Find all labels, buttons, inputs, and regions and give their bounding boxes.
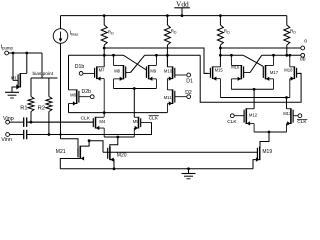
svg-text:CLK: CLK [81, 115, 91, 121]
svg-text:M8: M8 [114, 68, 120, 73]
junction RD3-rail [219, 14, 222, 17]
node gate rail M20/M19 [103, 151, 257, 153]
resistor RD1 [101, 25, 107, 45]
svg-text:D2b: D2b [82, 89, 92, 95]
node line M8/M9 sources [114, 88, 157, 90]
svg-text:M16: M16 [231, 65, 240, 70]
svg-text:M9: M9 [150, 68, 156, 73]
wire M6 source down [68, 104, 70, 113]
wire M5 drain up to inner source line [133, 89, 135, 118]
wire Vinp line to M4 gate [27, 121, 94, 123]
svg-text:M12: M12 [249, 112, 258, 117]
svg-text:R1: R1 [20, 105, 27, 111]
svg-text:o: o [304, 38, 307, 44]
svg-text:R2: R2 [38, 105, 45, 111]
transistor M12 [245, 108, 247, 124]
node ground rail [60, 168, 253, 170]
node bias point line [31, 77, 58, 79]
cross-couple wire to M16 gate [250, 55, 262, 72]
terminal D1 [187, 73, 191, 77]
transistor M17 [265, 65, 267, 79]
node stage1 left output line [69, 54, 124, 56]
transistor M8 [123, 65, 125, 79]
terminal CLKb stage2 [298, 114, 302, 118]
svg-text:Vinn: Vinn [1, 137, 12, 143]
transistor M15 [212, 66, 214, 79]
transistor M5 [138, 117, 140, 129]
transistor M7 [96, 66, 98, 79]
svg-text:M21: M21 [56, 149, 66, 155]
wire bias to R1 [30, 78, 32, 97]
capacitor C2 [23, 130, 25, 140]
resistor R2 [46, 97, 52, 112]
wire M6 drain up to left output [68, 55, 70, 90]
wire Ipump node [9, 52, 43, 54]
terminal ob [301, 53, 305, 57]
wire M20 source down [110, 160, 114, 169]
svg-text:Vinp: Vinp [3, 116, 14, 122]
wire Vinp to cap C1 [10, 121, 24, 123]
ground (main) [188, 169, 190, 174]
svg-text:M13: M13 [283, 111, 292, 116]
junction RD2-rail [166, 14, 169, 17]
svg-text:Vdd: Vdd [176, 0, 189, 8]
svg-text:M10: M10 [164, 68, 173, 73]
wire M21 drain up [80, 141, 89, 146]
wire Vdd stem [181, 8, 183, 16]
transistor M19 [259, 147, 261, 161]
transistor M9 [148, 65, 150, 79]
node line M16/M17 sources [231, 88, 273, 90]
terminal Vinn [6, 133, 10, 137]
wire down to bias point [41, 53, 43, 78]
wire bias to R2 [48, 78, 50, 97]
svg-text:D1b: D1b [75, 64, 85, 70]
svg-text:M15: M15 [215, 67, 224, 72]
terminal D2b [90, 95, 94, 99]
transistor M21 diode-connected mirror [79, 146, 81, 159]
cross-couple wire to M9 gate [124, 55, 147, 70]
terminal o [301, 46, 305, 50]
wire tail to M19 drain [260, 132, 269, 147]
terminal D1b [79, 72, 83, 76]
transistor M4 [95, 117, 97, 129]
resistor R1 [28, 97, 34, 112]
Vdd supply rail [61, 15, 287, 17]
wire stage1 left output to M15 gate [104, 48, 208, 73]
wire Vinn line to M5 gate [27, 122, 152, 134]
junction Vdd-rail [181, 14, 184, 17]
transistor M20 [109, 147, 111, 161]
svg-text:D2: D2 [185, 90, 192, 96]
capacitor C1 [23, 117, 25, 127]
junction R2-Vinn [48, 133, 51, 136]
node line M6/M11 sources + M4 drain [69, 112, 168, 114]
wire Ibias into M21 gate [61, 139, 79, 148]
wire M21 source down [60, 158, 80, 168]
svg-text:M5: M5 [133, 119, 139, 124]
svg-text:M17: M17 [270, 70, 279, 75]
svg-text:ob: ob [300, 56, 306, 62]
wire tail to M20 drain [110, 137, 118, 147]
transistor M13 [290, 108, 292, 124]
svg-text:Ibias: Ibias [70, 31, 79, 37]
node stage2 left output to terminal o [220, 47, 300, 49]
wire mirror to gate rail [89, 141, 103, 153]
wire M1 drain up [26, 53, 28, 73]
resistor RD4 [284, 25, 290, 45]
wire stage1 right output to M18 gate [200, 55, 301, 102]
svg-text:CLK: CLK [149, 116, 159, 122]
wire M1 source to ground [12, 87, 20, 92]
terminal Ipump [5, 51, 9, 55]
node stage1 right output line [145, 54, 201, 56]
node stage2 left output lower segment [220, 54, 243, 56]
transistor M18 [293, 66, 295, 79]
junction RD1-upper line [103, 47, 106, 50]
junction R1-Vinp [30, 121, 33, 124]
terminal D2 [187, 95, 191, 99]
svg-text:M18: M18 [284, 67, 293, 72]
terminal Vinp [6, 120, 10, 124]
cross-couple wire to M17 gate [243, 55, 263, 66]
svg-text:M4: M4 [99, 119, 105, 124]
junction RD1-rail [103, 14, 106, 17]
svg-text:M19: M19 [262, 149, 272, 155]
svg-text:Ipump: Ipump [1, 45, 14, 51]
ground (bias) [5, 91, 19, 93]
svg-text:M11: M11 [164, 95, 173, 100]
node line M15/M18 sources [220, 97, 289, 99]
transistor M16 [240, 65, 242, 79]
wire M1 gate up to Ipump node [12, 53, 14, 80]
node stage2 tail line [254, 131, 286, 133]
wire Vinn to cap C2 [10, 134, 24, 136]
svg-text:M20: M20 [117, 153, 127, 159]
resistor RD2 [164, 25, 170, 45]
wire M19 source down [253, 160, 260, 169]
svg-text:bias point: bias point [33, 71, 54, 77]
current source Ibias [60, 16, 62, 29]
cross-couple wire to M8 gate [131, 55, 145, 72]
terminal CLK stage2 [230, 114, 234, 118]
transistor M10 [172, 66, 174, 79]
wire Ibias down to mirror M21 [60, 43, 62, 139]
Vdd bar [174, 7, 190, 9]
node stage2 right output to terminal ob [262, 54, 301, 56]
resistor RD3 [217, 25, 223, 45]
svg-text:M6: M6 [70, 92, 76, 97]
transistor M6 [76, 89, 78, 104]
node tail of stage1 pair [104, 136, 134, 138]
transistor M11 [172, 89, 174, 104]
wire M13 drain up [286, 98, 288, 109]
wire M12 drain up [253, 89, 255, 108]
svg-text:CLK: CLK [227, 119, 237, 125]
svg-text:M7: M7 [99, 67, 105, 72]
transistor M1 diode-connected [19, 73, 21, 87]
svg-text:D1: D1 [186, 79, 193, 85]
svg-text:M1: M1 [11, 75, 17, 80]
